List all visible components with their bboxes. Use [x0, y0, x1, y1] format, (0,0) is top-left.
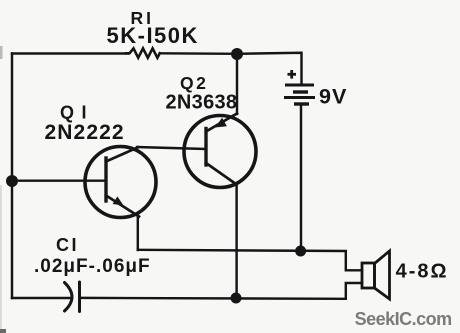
wire bottom rail left segment (to C1)	[12, 297, 71, 299]
junction node B (left rail / Q1 base)	[6, 175, 18, 187]
wire bottom rail right segment (C1 to speaker bottom)	[80, 283, 363, 299]
svg-text:CI: CI	[56, 235, 79, 255]
svg-text:9V: 9V	[319, 85, 347, 109]
capacitor C1	[65, 282, 80, 312]
battery plus sign	[288, 70, 297, 79]
svg-text:QI: QI	[60, 103, 94, 123]
scan artifact bottom left corner	[0, 329, 6, 333]
wire Q1 collector to Q2 base	[137, 147, 205, 149]
battery B1 9V	[284, 85, 315, 104]
wire left rail	[11, 54, 13, 299]
wire top rail left segment	[12, 52, 128, 54]
wire top rail middle segment (R1 to node A)	[160, 52, 237, 55]
wire Q1 emitter drop	[137, 216, 139, 251]
junction node C (battery negative / emitter rail)	[295, 246, 306, 257]
svg-text:Q2: Q2	[180, 73, 208, 93]
svg-text:2N2222: 2N2222	[45, 121, 125, 144]
wire top rail right segment (node A to battery)	[237, 53, 302, 85]
junction node A (top rail / Q2 emitter)	[231, 48, 243, 60]
scan artifact left edge lower	[0, 185, 2, 333]
junction node D (Q2 collector / bottom rail)	[231, 293, 242, 304]
wire battery negative lead	[300, 104, 302, 251]
svg-text:2N3638: 2N3638	[166, 92, 238, 114]
svg-text:4-8Ω: 4-8Ω	[396, 261, 449, 283]
transistor Q2 2N3638	[184, 114, 256, 188]
transistor Q1 2N2222	[85, 147, 156, 218]
svg-text:.02μF-.06μF: .02μF-.06μF	[34, 256, 151, 277]
wire Q2 collector drop	[235, 185, 237, 299]
resistor R1	[126, 48, 160, 57]
wire Q2 emitter riser to node A	[236, 54, 238, 114]
wire Q1 base lead	[12, 179, 105, 181]
wire emitter rail to battery negative and speaker top	[138, 250, 362, 270]
svg-text:5K-I50K: 5K-I50K	[107, 23, 199, 48]
svg-text:SeekIC.com: SeekIC.com	[355, 309, 452, 329]
speaker LS1	[362, 251, 390, 299]
scan artifact left edge upper	[0, 46, 3, 59]
